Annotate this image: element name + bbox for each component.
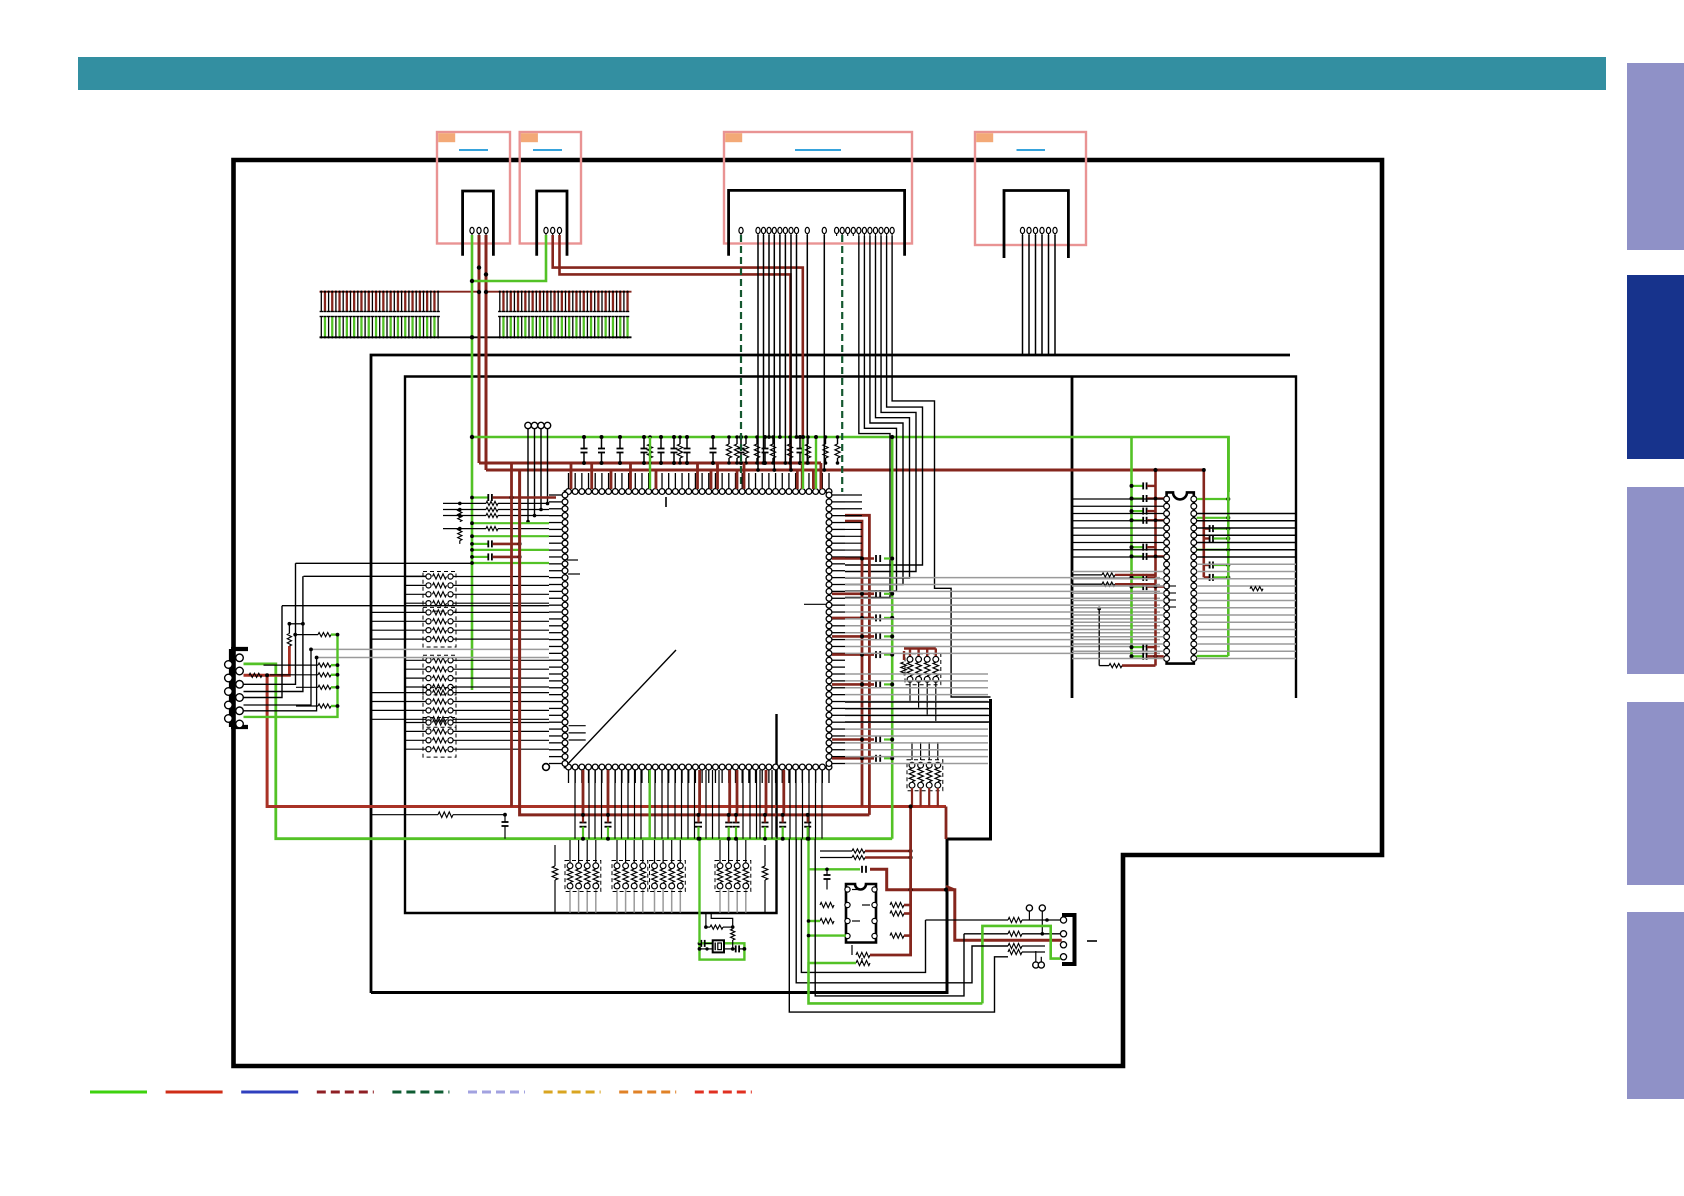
red vertical right of U1 (A) [845, 521, 862, 806]
resistor right of U2 [1250, 587, 1263, 591]
four wires into notch corner [845, 701, 991, 703]
black drops from U1 bottom pins [574, 770, 576, 839]
resistor R20 [649, 437, 651, 444]
U1 left pins [562, 492, 568, 498]
capacitor C11 [601, 437, 603, 448]
U1 internal pin ticks [567, 559, 578, 561]
capacitor array CA1 [320, 291, 441, 293]
U2 right wires to frame [1197, 513, 1296, 515]
caps right of U2 [1204, 527, 1209, 529]
resistor R28 [807, 437, 809, 444]
resistor R53 on red wire [249, 673, 262, 677]
caps between red bus and green bus [580, 822, 587, 824]
crystal feed wire B [711, 913, 733, 927]
off-page reference box J2 [520, 132, 581, 244]
capacitor C17 [712, 437, 714, 448]
wire CN1 red A [478, 235, 481, 463]
resistor network RN4 [717, 863, 723, 869]
capacitor C15 [673, 437, 675, 448]
U3 cap left [824, 874, 831, 876]
wire CN3 outer to notch [892, 236, 990, 697]
U2 right pins [1191, 496, 1197, 502]
resistor R21 [679, 437, 681, 444]
wires resistor packs left side [405, 576, 426, 578]
resistors near U2 left mid [1072, 574, 1102, 576]
U3 pins [845, 887, 850, 892]
capacitor C12 [619, 437, 621, 448]
red branch to U2 left [1154, 470, 1157, 594]
crystal leads [700, 942, 702, 944]
sidebar tab 5 [1627, 912, 1684, 1099]
U3 below resistors [856, 952, 870, 957]
resistor pack RP1 [426, 574, 431, 579]
junction dots CN group [470, 279, 474, 283]
resistor pack RP5 [426, 720, 431, 725]
crystal cap C72 [735, 945, 737, 952]
U2 internal ticks [1168, 585, 1176, 587]
legend wire-type 1 [90, 1091, 147, 1094]
wires CN3 left group [757, 235, 759, 470]
red vertical right of U2 [1203, 470, 1206, 577]
wire CN1 green [471, 235, 474, 690]
red bus corner down [945, 807, 948, 840]
green drop from U1 bottom [649, 770, 651, 839]
crystal feed wire A [705, 913, 707, 927]
U3 bottom drops [851, 945, 853, 955]
sidebar tab 1 [1627, 63, 1684, 250]
red vertical left of U2 (from bus) [1154, 594, 1157, 666]
RN5 red feeds [903, 651, 905, 660]
wires CN4 [1022, 235, 1024, 355]
U3 internal ticks [852, 889, 860, 891]
capacitor C14 [660, 437, 662, 448]
wires U1 left rows to resistor packs [453, 576, 549, 578]
U3 right resistors [890, 902, 904, 907]
legend wire-type 6 [468, 1091, 525, 1094]
caps left of U2 [1132, 485, 1143, 487]
resistor R30 [837, 437, 839, 444]
inner shield frame B left bracket [1071, 377, 1074, 699]
capacitor array CA2 [498, 291, 632, 293]
CN6 test circles below [1033, 962, 1039, 968]
resistor network RN6 (4x4 right of U1 lower) [909, 762, 915, 768]
U2 left black wires upper [1072, 498, 1164, 500]
green bus junction dot [470, 435, 474, 439]
resistor pack RP4 [426, 690, 431, 695]
sidebar tab 3 [1627, 487, 1684, 674]
red vertical B below bus [520, 470, 870, 815]
green rows to U1 upper-left [472, 522, 549, 524]
wire CN2 red A [553, 235, 803, 463]
bottom loop wire (green) [809, 962, 983, 1003]
wire with resistor R70 [372, 814, 438, 816]
red bottom corner left of U2 [1122, 664, 1156, 667]
CN6 row wires [926, 919, 1009, 921]
red supply bus upper [479, 462, 821, 465]
U3-CN6 junction dots [1045, 918, 1049, 922]
resistor R27 [789, 437, 791, 444]
off-page reference box J4 [975, 132, 1086, 245]
connector CN6 bracket [1062, 915, 1075, 964]
capacitor C16 [686, 437, 688, 448]
resistor R80 below U2 [1109, 664, 1122, 668]
resistor R25 [756, 437, 758, 444]
single resistor R60 [554, 845, 556, 866]
green feed to U1 top pin [649, 437, 651, 489]
green power bus (horizontal) [472, 437, 1229, 492]
cap C70 [502, 821, 509, 823]
legend wire-type 9 [695, 1091, 752, 1094]
red stubs U3 right [852, 849, 865, 853]
connector CN4 [1004, 191, 1068, 259]
red bus lower horizontal [510, 463, 513, 807]
resistor R23 [736, 437, 738, 444]
bottom loop wires (black) [789, 839, 1008, 1012]
U1 pin-1 marker [543, 764, 550, 771]
wire CN5 red out [244, 675, 947, 806]
resistor network RN3 [652, 863, 658, 869]
green stubs right of U2 [1197, 498, 1229, 500]
connector CN2 [537, 191, 567, 256]
U2 left gray wires [1072, 571, 1164, 573]
red feeds to U1 top pins [570, 463, 573, 489]
legend wire-type 7 [544, 1091, 601, 1094]
CN6 pins [1060, 917, 1066, 923]
legend wire-type 8 [619, 1091, 676, 1094]
wire CN1 red B [485, 235, 488, 470]
header title bar [78, 57, 1606, 90]
resistor network RN5 (4x4 right of U1) [907, 656, 913, 662]
resistor R22 [728, 437, 730, 444]
microprocessor U1 (QFP) body [565, 492, 829, 768]
RN5 resistor left [901, 662, 907, 675]
connector CN1 [463, 191, 494, 256]
resistor R51 (vertical) [458, 510, 462, 522]
single resistor R61 [764, 845, 766, 866]
resistor R29 [825, 437, 827, 444]
inner shield frame B [405, 377, 1296, 914]
wire CN5 green out [244, 664, 893, 839]
green vertical right of U2 [1227, 437, 1230, 656]
black rows U1 right short leads [845, 494, 862, 496]
wire CN5 red stub up [267, 646, 289, 675]
wires CN5 black [244, 563, 296, 684]
green feeds right group [802, 437, 804, 489]
crystal X1 body [713, 940, 724, 952]
crystal cap C71 [700, 940, 702, 947]
U1 orientation tick [665, 497, 667, 507]
resistor R54 vertical [287, 634, 291, 647]
sidebar tab 4 [1627, 702, 1684, 885]
red supply bus lower [486, 469, 1204, 472]
gray rows U1 right lower [845, 673, 988, 675]
wire CN2 red B [560, 235, 791, 470]
crystal X1 green loop [700, 943, 745, 959]
capacitor C13 [643, 437, 645, 448]
resistor R24 [745, 437, 747, 444]
red drops from U1 bottom pins [582, 770, 585, 815]
RN6 wires [911, 742, 913, 760]
green vertical right of U1 [891, 437, 894, 839]
resistor R52 (vertical) [458, 529, 462, 541]
resistor pack RP3 [426, 658, 431, 663]
red bus horizontal upper [267, 805, 946, 808]
red vertical right of U1 (B) [845, 515, 869, 815]
CN6 dash right [1087, 940, 1097, 942]
green bottom stub right of U2 [1197, 655, 1229, 657]
legend wire-type 3 [241, 1091, 298, 1094]
wire CN2 green [472, 235, 546, 281]
legend wire-type 2 [166, 1091, 223, 1094]
off-page reference box J3 [724, 132, 912, 244]
IC U3 (8-pin) body [846, 884, 876, 943]
wire CN3 pin1 (dashed) [740, 235, 742, 487]
U1 top pins [566, 489, 572, 495]
capacitor C20 [799, 437, 801, 448]
U1 right pins [826, 492, 832, 498]
connector CN3 [729, 190, 905, 255]
short rows U1 upper-left with resistors [443, 502, 486, 504]
test points TP1-TP4 [525, 422, 531, 428]
gray wires U1 left [311, 648, 549, 650]
connector CN5 (FFC) [231, 647, 248, 651]
sidebar tab 2 (active) [1627, 275, 1684, 459]
crystal resistor R72 (vertical) [731, 929, 735, 940]
wires CN3 right group (staircase) [845, 236, 923, 565]
RN5 bottom wires [909, 682, 911, 702]
caps right of U1 [832, 557, 874, 560]
U3 green rows [809, 920, 821, 922]
capacitor C19 [764, 437, 766, 448]
inner shield frame A bottom [371, 699, 991, 993]
wires U1 left long rows [296, 562, 550, 564]
capacitor C10 [583, 437, 585, 448]
IC U2 (DIP) body [1167, 492, 1194, 663]
U3 area green wires [807, 839, 809, 962]
CN6 green feed [982, 926, 1060, 1004]
U1 bottom pins [566, 764, 572, 770]
U2 left pins [1164, 496, 1170, 502]
board outline frame [234, 160, 1383, 1066]
green stub vertical RG1 [244, 635, 338, 717]
cap rows to U1 upper-left [472, 496, 488, 498]
legend wire-type 5 [392, 1091, 449, 1094]
off-page reference box J1 [437, 132, 510, 244]
resistor network RN1 [567, 863, 573, 869]
red wires U3 right rows [904, 904, 911, 907]
CN6 row resistors [1008, 917, 1022, 922]
U3 left resistors [820, 902, 834, 907]
resistor R26 [772, 437, 774, 444]
resistor network RN2 [614, 863, 620, 869]
gray rows U1 right to DIP [845, 577, 1160, 579]
capacitor C18 [740, 437, 742, 448]
wire CN3 pin13 (dashed) [841, 235, 843, 492]
comb bus extensions [440, 291, 479, 293]
resistor pack RP2 [426, 610, 431, 615]
resistor group RG1 [318, 633, 331, 637]
legend wire-type 4 [317, 1091, 374, 1094]
inner shield frame A [371, 355, 1290, 993]
CN6 test circles above [1026, 905, 1032, 911]
crystal resistor R71 [710, 925, 723, 929]
green vertical left of U2 [1130, 437, 1133, 656]
green vertical bottom center [698, 839, 700, 944]
